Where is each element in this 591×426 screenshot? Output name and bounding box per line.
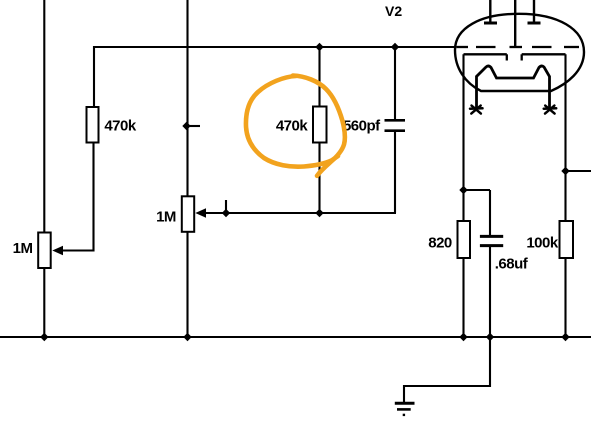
resistor 100k xyxy=(560,221,574,258)
tube plate bar left xyxy=(484,22,497,25)
wire 560pf bottom lead xyxy=(394,130,396,213)
svg-text:820: 820 xyxy=(428,235,452,252)
wiper arrow of middle pot xyxy=(195,208,206,218)
resistor 470k grid (circled) xyxy=(313,107,327,143)
wiper arrow of left pot xyxy=(52,246,63,256)
tube filament xyxy=(477,66,550,109)
wire middle pot bottom lead xyxy=(186,231,188,338)
tube plate lead right xyxy=(533,0,535,22)
tube plate bar right xyxy=(528,22,541,25)
junction dot middle rail stub xyxy=(182,122,190,130)
junction dot grid/560pf xyxy=(391,43,399,51)
junction dot bus/middle pot xyxy=(183,333,191,341)
svg-text:560pf: 560pf xyxy=(343,117,381,134)
wire stub up on wiper line xyxy=(225,200,227,213)
wire top grid bus xyxy=(94,47,455,107)
resistor 470k left xyxy=(87,107,99,143)
wire ground drop xyxy=(404,337,490,402)
svg-text:V2: V2 xyxy=(385,3,402,19)
capacitor .68uf xyxy=(480,236,503,245)
tube grid lead center xyxy=(514,0,516,47)
junction dot wiper/470k xyxy=(315,209,323,217)
svg-text:.68uf: .68uf xyxy=(495,256,529,273)
wire wiper line of middle pot xyxy=(204,212,396,214)
junction dot bus/100k xyxy=(561,333,569,341)
annotation orange circle xyxy=(246,76,345,176)
wire .68uf top lead xyxy=(489,190,491,236)
junction dot bus/ground xyxy=(486,333,494,341)
potentiometer 1M middle xyxy=(182,196,194,232)
wire left pot bottom lead xyxy=(43,267,45,338)
wire left rail top xyxy=(43,0,45,233)
tube plate lead left xyxy=(489,0,491,22)
tube cathode box top bar xyxy=(464,54,566,60)
wire 820 bottom lead xyxy=(462,258,464,338)
potentiometer 1M left xyxy=(38,233,51,269)
wire output to right edge xyxy=(566,170,591,172)
svg-text:470k: 470k xyxy=(276,117,309,134)
wire middle rail top xyxy=(186,0,188,197)
wire 560pf top lead xyxy=(394,47,396,120)
tube grid dashes xyxy=(457,46,580,48)
wire ground bus xyxy=(0,336,591,338)
wire .68uf bottom lead xyxy=(489,246,491,338)
svg-text:1M: 1M xyxy=(13,240,33,257)
resistor 820 xyxy=(458,221,471,258)
wire 100k bottom lead xyxy=(564,258,566,338)
svg-text:100k: 100k xyxy=(526,235,559,252)
svg-text:470k: 470k xyxy=(104,117,137,134)
junction dot 100k/output xyxy=(561,167,569,175)
ground xyxy=(395,403,415,415)
junction dot grid/470k xyxy=(315,43,323,51)
junction dot 820/cap branch xyxy=(459,186,467,194)
junction dot bus/left pot xyxy=(40,333,48,341)
wire middle 470k bottom lead xyxy=(318,142,320,213)
wire tube right lead to 100k xyxy=(564,54,566,221)
wire tube left lead to 820 xyxy=(462,54,464,221)
svg-text:1M: 1M xyxy=(156,208,176,225)
capacitor 560pf xyxy=(385,120,406,130)
tube heater asterisk left xyxy=(470,106,483,114)
tube V2 envelope xyxy=(455,14,584,91)
wire middle 470k top lead xyxy=(318,47,320,107)
junction dot wiper stub xyxy=(222,209,230,217)
tube heater asterisk right xyxy=(544,106,557,114)
wire stub on middle rail xyxy=(188,125,201,127)
junction dot bus/820 xyxy=(459,333,467,341)
wire left 470k bottom lead xyxy=(61,142,94,251)
wire cap branch horizontal xyxy=(464,189,491,191)
